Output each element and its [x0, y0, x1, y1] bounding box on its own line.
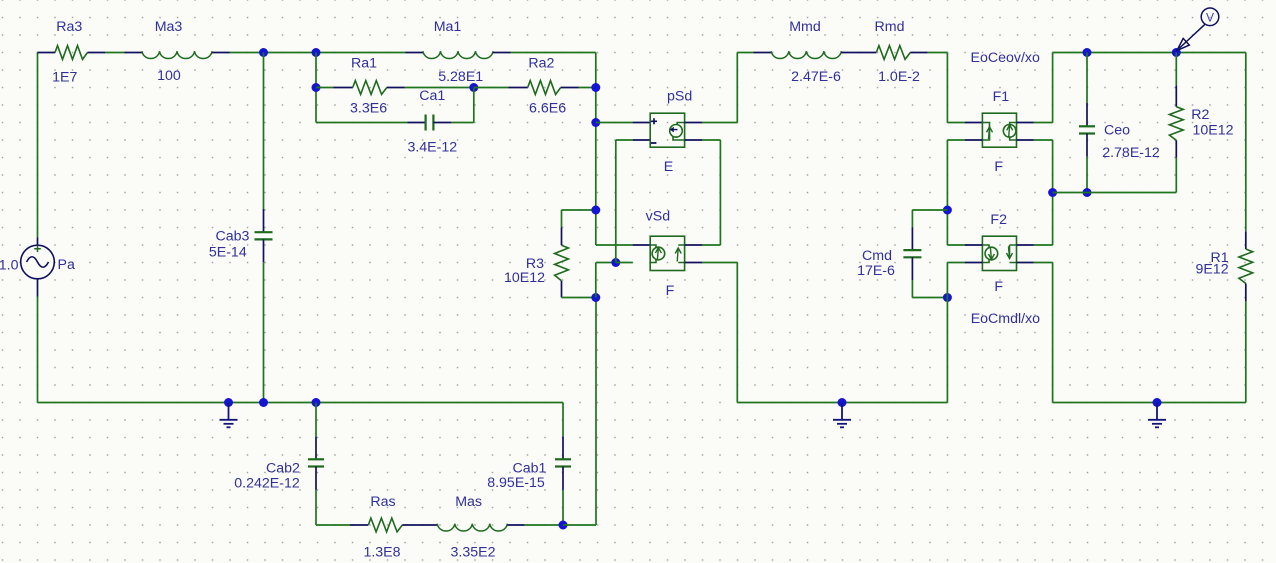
svg-text:Ca1: Ca1 [419, 88, 445, 104]
svg-text:Ras: Ras [370, 494, 395, 510]
wire R3 lower lead [561, 281, 563, 298]
svg-text:V: V [1206, 11, 1214, 25]
svg-text:Ma1: Ma1 [434, 19, 462, 35]
svg-text:F2: F2 [990, 212, 1007, 228]
source Pa sine voltage source [21, 238, 55, 297]
svg-text:F1: F1 [993, 89, 1010, 105]
junction R3 top node [591, 206, 600, 215]
junction ground node left [224, 398, 233, 407]
wire Ma1 left lead [406, 52, 424, 54]
svg-text:Ra3: Ra3 [56, 19, 82, 35]
svg-text:F: F [994, 159, 1003, 175]
junction Ceo bottom node [1083, 188, 1092, 197]
wire Rmd to F1 [910, 52, 928, 54]
svg-text:R2: R2 [1191, 107, 1209, 123]
svg-text:vSd: vSd [646, 209, 670, 225]
svg-text:Cab1: Cab1 [513, 460, 547, 476]
wire Ma3 to node, top bus toward Ma1 [212, 52, 230, 54]
capacitor Cab1 [555, 458, 571, 460]
svg-text:Mas: Mas [455, 494, 482, 510]
resistor Ra2 [528, 81, 561, 95]
F-source vSd box [650, 236, 684, 270]
svg-text:1.3E8: 1.3E8 [363, 544, 400, 560]
junction mid ground node [838, 398, 847, 407]
svg-text:100: 100 [157, 68, 181, 84]
resistor Ra1 [353, 81, 387, 95]
wire main mid vertical bus [595, 53, 597, 246]
wire node to R3 vertical [563, 524, 596, 526]
svg-text:1.0E-2: 1.0E-2 [878, 69, 920, 85]
wire R3 upper lead [561, 210, 563, 228]
pSd minus mark [651, 142, 657, 144]
wire vSd pin2 input [616, 262, 633, 264]
resistor Rmd [876, 46, 910, 60]
capacitor Cab2 [308, 458, 324, 460]
wire Cab3 branch [263, 53, 265, 210]
junction bottom network node [559, 521, 568, 530]
svg-text:0.242E-12: 0.242E-12 [234, 476, 300, 492]
svg-text:Cmd: Cmd [862, 248, 892, 264]
junction Cmd bottom node [943, 293, 952, 302]
svg-text:Cab2: Cab2 [266, 460, 300, 476]
junction Ra2 to bus node [591, 83, 600, 92]
wire pSd minus input [633, 139, 651, 141]
wire Ra2 row [474, 87, 509, 89]
ground middle [833, 403, 851, 428]
capacitor Cab3 [255, 231, 273, 233]
inductor Mas [437, 524, 507, 531]
junction Ra1-Ra2-Ca1 node [469, 83, 478, 92]
wire Ra1 right lead [387, 87, 405, 89]
junction probe node [1172, 48, 1181, 57]
svg-text:pSd: pSd [667, 89, 692, 105]
junction Cab3 bottom node [259, 398, 268, 407]
svg-text:9E12: 9E12 [1195, 261, 1228, 277]
svg-text:3.4E-12: 3.4E-12 [407, 140, 457, 156]
F1 circle arrow up [1007, 125, 1013, 137]
wire Ca1 row [316, 122, 408, 124]
wire R2 branch [1175, 53, 1177, 86]
wire Ma1 right lead to corner [493, 52, 511, 54]
junction Ceo top node [1083, 48, 1092, 57]
wire jog node to vSd minus net [595, 263, 597, 298]
svg-text:Ra1: Ra1 [351, 56, 377, 72]
svg-text:Ma3: Ma3 [155, 19, 183, 35]
resistor R2 [1169, 107, 1183, 141]
junction Cab2 top node [312, 398, 321, 407]
svg-text:F: F [666, 283, 675, 299]
wire R2 lower lead to node row [1175, 140, 1177, 158]
svg-text:10E12: 10E12 [1193, 122, 1234, 138]
svg-text:10E12: 10E12 [504, 270, 545, 286]
wire pSd output pin1 to top bus [685, 122, 702, 124]
wire Ra3 to Ma3 [88, 52, 106, 54]
wire F2 left pin2 to ground rail [965, 262, 982, 264]
ground right [1148, 403, 1166, 428]
wire F1 right pin2 down [1017, 139, 1034, 141]
junction Cab3 top node [259, 48, 268, 57]
wire Cab2 branch down [315, 403, 317, 437]
F-source F1 box [982, 113, 1016, 147]
junction R3 bottom node [591, 293, 600, 302]
resistor R3 [555, 245, 569, 280]
junction ladder top node [312, 48, 321, 57]
wire Ra2 right lead [561, 87, 579, 89]
F2 sense arrow down [1007, 247, 1013, 259]
inductor Mmd [771, 51, 841, 58]
junction Ra1 left node [312, 83, 321, 92]
F1 sense arrow up [987, 127, 993, 139]
svg-text:Rmd: Rmd [875, 19, 905, 35]
svg-text:EoCmdl/xo: EoCmdl/xo [971, 311, 1040, 327]
capacitor Ceo [1079, 125, 1095, 127]
wire Ra1 row left [316, 87, 334, 89]
wire ladder left vertical [315, 53, 317, 123]
vSd circle arrow up [655, 248, 661, 260]
vSd sense arrow up [675, 248, 681, 262]
svg-text:8.95E-15: 8.95E-15 [487, 475, 545, 491]
svg-text:2.47E-6: 2.47E-6 [791, 69, 841, 85]
svg-text:2.78E-12: 2.78E-12 [1102, 145, 1160, 161]
inductor Ma3 [142, 51, 212, 58]
resistor Ras [368, 518, 402, 532]
wire vSd output pin2 to mid ground rail [685, 262, 702, 264]
resistor R1 [1239, 249, 1253, 284]
wire pSd plus input [596, 122, 633, 124]
wire Cab1 lower lead [562, 467, 564, 490]
capacitor Cmd [903, 249, 921, 251]
svg-text:Ra2: Ra2 [528, 56, 554, 72]
wire Cmd branch [912, 209, 947, 211]
svg-text:5.28E1: 5.28E1 [438, 69, 483, 85]
voltage probe V [1177, 8, 1219, 51]
capacitor Ca1 [425, 115, 427, 131]
wire Pa top vertical [37, 53, 39, 238]
pSd circle polarity mark [671, 128, 678, 132]
svg-text:6.6E6: 6.6E6 [529, 100, 566, 116]
wire right edge vertical with R1 [1245, 53, 1247, 232]
svg-text:Cab3: Cab3 [216, 228, 250, 244]
wire R3 top connection [562, 209, 596, 211]
wire Pa bottom to ground rail [37, 297, 39, 403]
op-amp U1... E-source pSd box [650, 113, 684, 147]
svg-text:3.3E6: 3.3E6 [350, 100, 387, 116]
wire Mmd to Rmd [841, 52, 876, 54]
wire Cab1 branch down [562, 403, 564, 437]
wire Ceo branch [1086, 53, 1088, 104]
ground left [220, 403, 238, 428]
junction R2-Ceo node [1048, 188, 1057, 197]
junction vSd input node [611, 258, 620, 267]
wire vSd pin1 input [633, 244, 651, 246]
svg-text:E: E [664, 159, 673, 175]
svg-text:1.0: 1.0 [0, 257, 19, 273]
svg-text:17E-6: 17E-6 [857, 263, 895, 279]
svg-text:Pa: Pa [58, 257, 75, 273]
wire R1 lower lead [1245, 284, 1247, 302]
wire Ca1 right lead up to node [433, 122, 451, 124]
wire F1 left pin2 down to F2 pin1 [947, 139, 965, 141]
resistor R1... Ra3 zigzag [55, 46, 88, 60]
svg-text:Ceo: Ceo [1104, 122, 1130, 138]
wire top-left corner to resistor Ra3 [38, 52, 56, 54]
wire Ceo lower lead [1086, 134, 1088, 157]
svg-text:1E7: 1E7 [52, 70, 77, 86]
wire Cab2 lower lead and bottom row [315, 467, 317, 490]
F-source F2 box [982, 236, 1016, 270]
wire Ras to Mas [402, 524, 437, 526]
F2 circle arrow down [988, 247, 994, 259]
wire F1 right pin1 to top bus [1017, 122, 1034, 124]
wire pSd output pin2 to vSd pin1 [685, 139, 702, 141]
pSd plus mark [651, 118, 657, 124]
svg-text:3.35E2: 3.35E2 [451, 544, 496, 560]
junction right ground node [1153, 398, 1162, 407]
wire Mas right lead to node [507, 524, 525, 526]
svg-text:5E-14: 5E-14 [209, 244, 247, 260]
wire Cmd lower lead [911, 257, 913, 280]
wire Cab3 lower lead to rail [263, 239, 265, 262]
wire F2 right pin2 to right ground rail [1017, 262, 1034, 264]
junction Cmd top node [943, 206, 952, 215]
junction pSd plus node [591, 118, 600, 127]
inductor Ma1 [423, 51, 493, 58]
svg-text:Mmd: Mmd [789, 19, 821, 35]
svg-text:F: F [994, 279, 1003, 295]
svg-text:EoCeov/xo: EoCeov/xo [971, 50, 1041, 66]
